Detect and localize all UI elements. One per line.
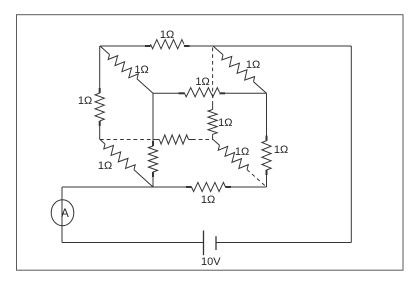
resistor R7 (1Ω, cube front bottom edge) [153, 182, 267, 206]
svg-text:10V: 10V [201, 256, 221, 268]
resistor R6 (1Ω, cube front left edge) [148, 93, 157, 187]
wire: ammeter top to cube front-bottom-left corner [62, 186, 153, 188]
resistor R2 (1Ω, cube back left edge) [78, 46, 104, 140]
ammeter A1 [51, 200, 74, 226]
svg-text:A: A [61, 208, 69, 220]
resistor R5 (1Ω, cube front top edge) [153, 76, 267, 97]
svg-text:1Ω: 1Ω [98, 160, 112, 172]
svg-text:1Ω: 1Ω [195, 76, 209, 88]
svg-text:1Ω: 1Ω [246, 59, 260, 71]
wire: left rail up to ammeter [61, 187, 63, 243]
svg-text:1Ω: 1Ω [78, 95, 92, 107]
svg-text:1Ω: 1Ω [235, 146, 249, 158]
resistor R1 (1Ω, cube back top edge) [100, 29, 213, 49]
wire: right rail down [350, 46, 352, 243]
svg-text:1Ω: 1Ω [201, 194, 215, 206]
wire: cube back-top-right corner to right rail [213, 45, 351, 47]
resistor R3 (1Ω, cube back bottom edge, hidden) [100, 135, 213, 144]
resistor R9 (1Ω, cube top-left diagonal edge) [100, 46, 153, 93]
svg-text:1Ω: 1Ω [218, 117, 232, 129]
svg-text:1Ω: 1Ω [160, 29, 174, 41]
resistor R4 (1Ω, cube back right edge, hidden) [208, 48, 232, 140]
wire: bottom rail left of battery [62, 242, 204, 244]
resistor R11 (1Ω, cube bottom-left diagonal edge) [98, 140, 153, 188]
svg-text:1Ω: 1Ω [274, 144, 288, 156]
resistor R10 (1Ω, cube top-right diagonal edge) [213, 46, 267, 93]
resistor R12 (1Ω, cube bottom-right diagonal edge, hidden) [213, 140, 267, 188]
resistor R8 (1Ω, cube front right edge) [262, 93, 288, 187]
svg-text:1Ω: 1Ω [134, 64, 148, 76]
battery BT1 (10V) [201, 231, 221, 269]
wire: bottom rail right of battery [216, 242, 351, 244]
